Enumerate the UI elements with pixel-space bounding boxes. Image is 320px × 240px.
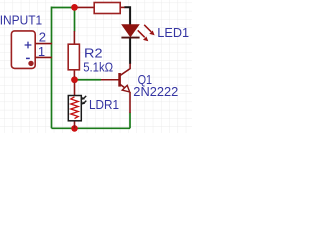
wire: bottom rail [52, 127, 131, 129]
wire: emitter down to bottom rail [129, 113, 131, 129]
svg-text:INPUT1: INPUT1 [0, 14, 42, 28]
wire: top rail from left corner to junction [52, 7, 75, 9]
transistor Q1 (NPN) [101, 64, 130, 114]
emitter diagonal [120, 84, 125, 88]
node junction top (R1/R2/input) [71, 4, 78, 11]
svg-text:LDR1: LDR1 [89, 98, 119, 112]
wire: black net R1 right to LED anode [124, 7, 130, 25]
svg-text:5.1kΩ: 5.1kΩ [83, 61, 113, 75]
ldr box [68, 96, 81, 121]
svg-text:2: 2 [39, 30, 46, 45]
node junction bottom (LDR/rail) [71, 125, 78, 132]
led cathode bar [121, 37, 139, 39]
led triangle [122, 25, 139, 37]
LED1 [121, 25, 154, 42]
emitter hollow arrow [122, 85, 130, 92]
node junction middle (R2/LDR/base) [71, 76, 78, 83]
ldr bottom pin [74, 121, 76, 129]
svg-text:1: 1 [38, 44, 45, 59]
wire: junction down to R2 top [74, 8, 76, 32]
wire: left vertical bus (pin2/pin1 to bottom rail) [51, 7, 53, 129]
ldr top pin [74, 83, 76, 97]
led emission arrow 1 [144, 25, 151, 32]
svg-text:LED1: LED1 [157, 26, 189, 40]
ldr zigzag [71, 97, 78, 119]
LDR1 [68, 83, 86, 129]
ldr arrow 2 [84, 101, 86, 103]
resistor R2 (vertical) [68, 31, 79, 77]
svg-text:R2: R2 [84, 47, 103, 61]
collector diagonal [120, 64, 131, 76]
emitter pin down [129, 92, 131, 113]
base bar [118, 73, 121, 87]
wire: black net LED cathode to Q1 collector [129, 38, 131, 64]
ldr arrow 1 [84, 96, 86, 98]
base pin [101, 79, 120, 81]
led emission arrow 2 [138, 30, 145, 37]
resistor R1 (horizontal, top) [78, 3, 125, 14]
connector INPUT1 [11, 31, 52, 69]
svg-text:2N2222: 2N2222 [133, 85, 178, 99]
wire: R2 bottom junction to Q1 base [75, 79, 102, 81]
